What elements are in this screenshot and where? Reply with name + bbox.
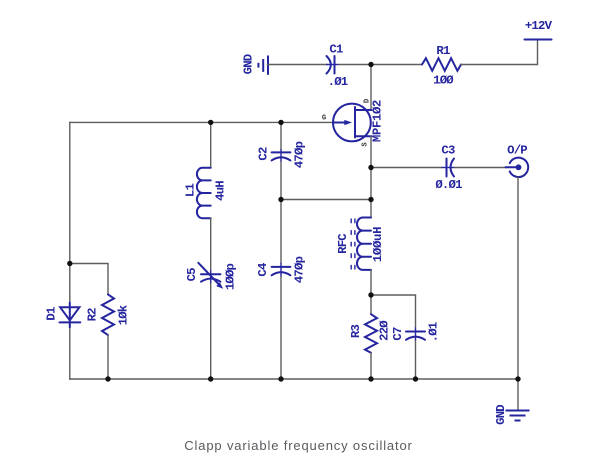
wire ground rail bottom [70, 378, 518, 380]
wire node to C7 branch [371, 295, 416, 328]
resistor R1 [422, 44, 461, 88]
junction (C7 bottom) [413, 376, 418, 381]
junction (L1 top) [208, 120, 213, 125]
svg-text:C1: C1 [329, 43, 343, 57]
svg-text:47Øp: 47Øp [292, 256, 306, 283]
capacitor C2 [257, 141, 307, 168]
svg-text:.Ø1: .Ø1 [427, 322, 441, 342]
svg-text:C2: C2 [257, 147, 271, 161]
svg-text:C3: C3 [441, 144, 455, 158]
svg-text:Ø.Ø1: Ø.Ø1 [435, 178, 462, 192]
junction (drain node at top wire) [368, 62, 373, 67]
svg-text:C4: C4 [256, 262, 270, 277]
svg-text:S: S [362, 142, 370, 147]
wire L1 to C5 [210, 218, 212, 270]
wire C4 bottom lead [280, 277, 282, 379]
junction (C5 bottom) [208, 376, 213, 381]
wire C2 to mid node [280, 162, 282, 200]
wire C3 to O/P connector [455, 167, 507, 169]
svg-text:GND: GND [242, 54, 256, 74]
junction (RFC top node) [368, 197, 373, 202]
svg-text:R1: R1 [436, 44, 450, 58]
svg-text:Clapp variable frequency oscil: Clapp variable frequency oscillator [184, 438, 412, 453]
ground GND2 (bottom right) [494, 405, 530, 425]
wire gate horizontal [70, 121, 333, 123]
svg-text:1ØØ: 1ØØ [433, 74, 454, 88]
svg-text:L1: L1 [184, 184, 198, 198]
svg-text:47Øp: 47Øp [293, 141, 307, 168]
wire left rail vertical [69, 122, 71, 379]
wire R2 bottom lead [107, 335, 109, 379]
wire node to drain [370, 65, 372, 110]
capacitor C1 [326, 43, 348, 90]
wire node to R2 branch [70, 264, 108, 295]
wire source to output node [370, 136, 372, 167]
resistor R2 [86, 294, 131, 335]
wire C7 bottom lead [415, 341, 417, 379]
svg-text:.Ø1: .Ø1 [328, 75, 348, 89]
wire R3 top lead [370, 295, 372, 314]
diode D1 [45, 303, 81, 328]
wire C1 to R1 through node [339, 64, 422, 66]
junction (R2 bottom) [105, 376, 110, 381]
svg-text:C7: C7 [391, 327, 405, 341]
junction (D1/R2 top node) [67, 261, 72, 266]
svg-text:D1: D1 [45, 307, 59, 321]
junction (C2/C4 mid node) [278, 197, 283, 202]
inductor L1 4uH [184, 168, 228, 218]
wire O/P down to ground rail [517, 177, 519, 379]
junction (RFC/R3/C7 node) [368, 292, 373, 297]
wire mid node to C4 [280, 200, 282, 263]
resistor R3 [349, 314, 392, 353]
connector O/P [506, 144, 529, 177]
svg-text:G: G [322, 115, 326, 123]
svg-text:1ØØp: 1ØØp [224, 263, 238, 290]
svg-text:22Ø: 22Ø [378, 320, 392, 341]
svg-text:RFC: RFC [336, 233, 350, 254]
wire mid horizontal C2C4 to RFC [281, 199, 371, 201]
wire source node down [370, 168, 372, 200]
capacitor C4 [256, 256, 306, 283]
junction (C2 top) [278, 120, 283, 125]
junction (C4 bottom) [278, 376, 283, 381]
wire RFC top lead [370, 200, 372, 218]
svg-text:+12V: +12V [525, 19, 553, 33]
wire RFC bottom lead [370, 270, 372, 295]
svg-text:O/P: O/P [507, 144, 527, 158]
wire L1 column top [210, 122, 212, 167]
capacitor C3 [435, 144, 462, 193]
variable capacitor C5 [185, 263, 238, 290]
svg-text:GND: GND [494, 405, 508, 425]
junction (R3 bottom) [368, 376, 373, 381]
junction (source node) [368, 165, 373, 170]
power +12V [525, 19, 553, 40]
svg-text:C5: C5 [185, 268, 199, 282]
junction (output ground node) [515, 376, 520, 381]
wire ground node down to GND2 [517, 379, 519, 411]
inductor RFC 100uH [336, 218, 385, 270]
wire source node to C3 [371, 167, 442, 169]
wire GND1 to C1 [268, 64, 328, 66]
wire C2 top lead [280, 122, 282, 149]
svg-text:4uH: 4uH [214, 181, 228, 201]
wire C5 bottom lead [210, 284, 212, 379]
capacitor C7 [391, 322, 441, 342]
svg-text:MPF1Ø2: MPF1Ø2 [371, 100, 385, 142]
svg-text:1Øk: 1Øk [117, 304, 131, 325]
svg-text:R3: R3 [349, 325, 363, 339]
svg-text:R2: R2 [86, 308, 100, 322]
wire R1 to +12V [461, 40, 538, 65]
svg-text:1ØØuH: 1ØØuH [371, 227, 385, 262]
transistor Q1 MPF102 (JFET) [322, 98, 385, 147]
ground GND1 (top left) [242, 54, 269, 75]
wire R3 bottom lead [370, 353, 372, 379]
